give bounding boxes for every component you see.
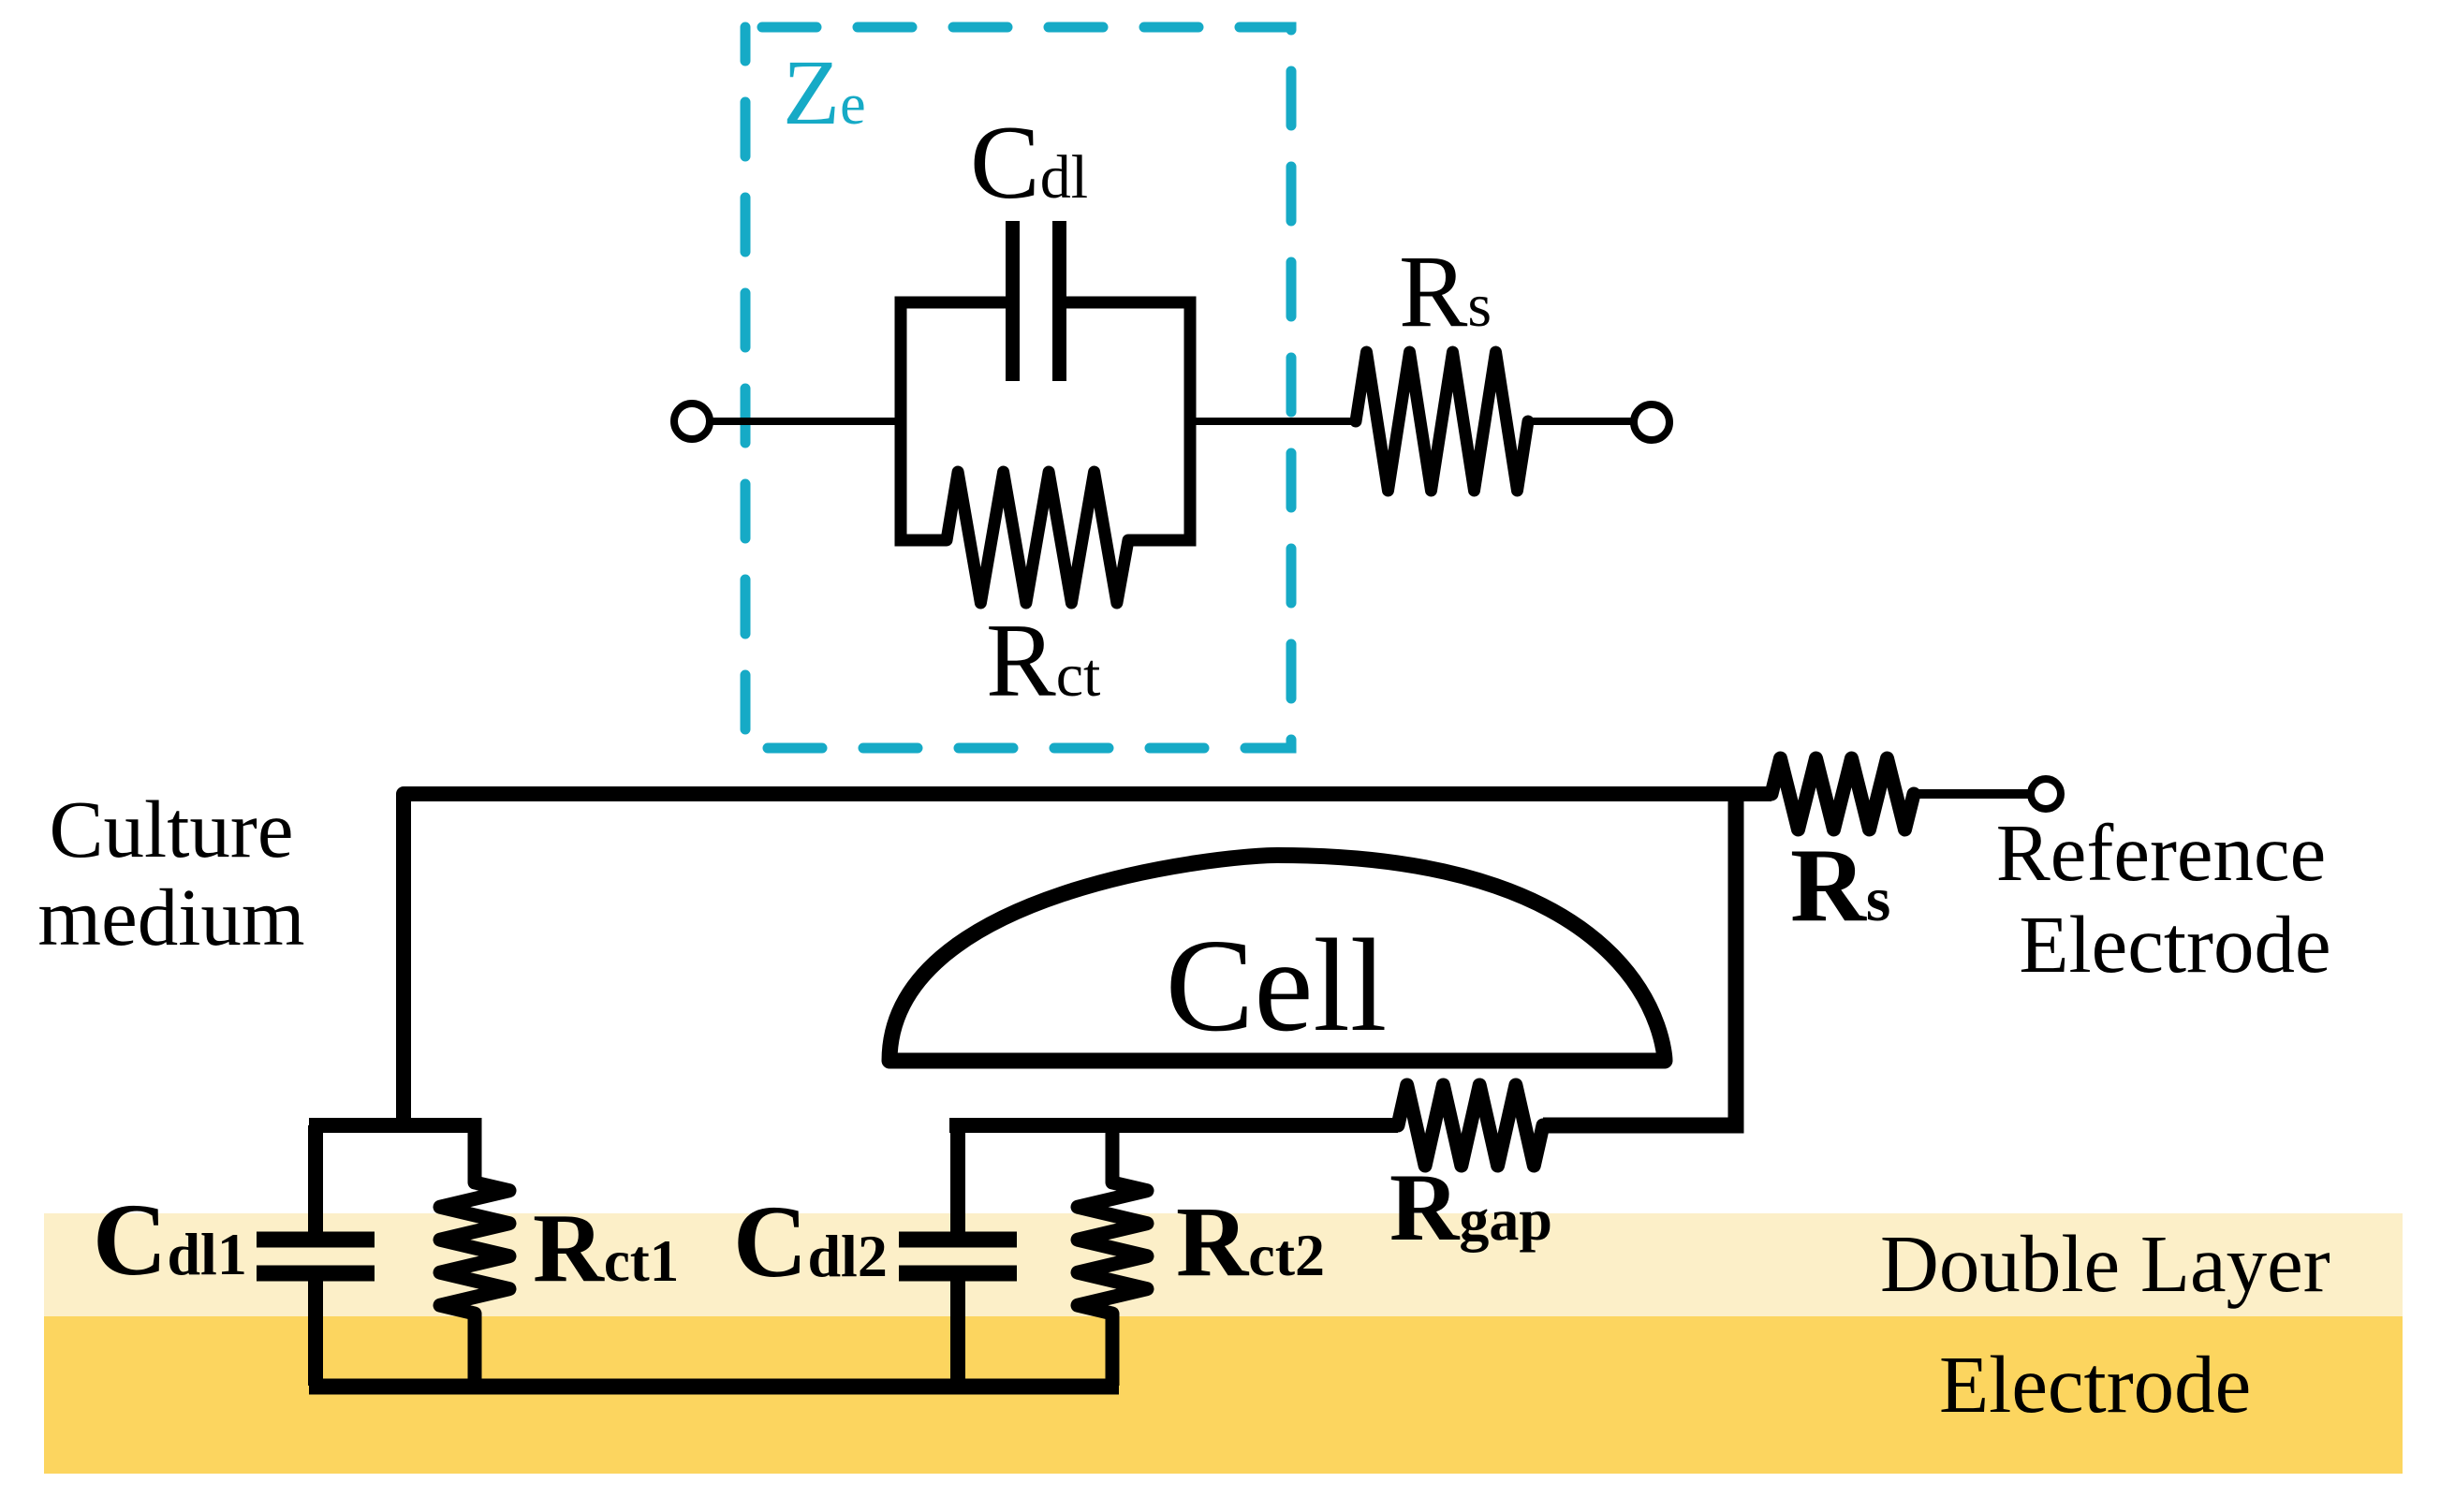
wire [712, 418, 901, 425]
svg-text:Rct: Rct [986, 603, 1100, 719]
wire top (culture medium loop) [404, 794, 1771, 1125]
svg-text:Rct2: Rct2 [1176, 1187, 1325, 1298]
svg-text:Cdl2: Cdl2 [733, 1184, 888, 1299]
resistor Rgap [1398, 1085, 1543, 1166]
svg-text:medium: medium [37, 872, 304, 962]
capacitor Cdl [1013, 221, 1060, 381]
svg-text:Cdl: Cdl [970, 105, 1088, 221]
svg-text:Rct1: Rct1 [533, 1193, 679, 1302]
svg-text:Cell: Cell [1166, 911, 1388, 1059]
wire right vertical [1543, 794, 1736, 1125]
wire Rgap line left [949, 1118, 1398, 1133]
wire Cdl2 branch upper [950, 1118, 965, 1232]
wire Cdl1 branch upper [308, 1125, 323, 1232]
svg-text:Ze: Ze [783, 40, 866, 144]
svg-text:Electrode: Electrode [1939, 1339, 2251, 1430]
wire pair1 top bar [309, 1118, 478, 1133]
resistor Rct1 [468, 1118, 482, 1182]
svg-text:Culture: Culture [50, 784, 294, 874]
resistor Rs top [1356, 352, 1528, 491]
svg-text:Cdl1: Cdl1 [93, 1182, 247, 1297]
resistor Rct2 [1106, 1118, 1120, 1182]
cell dome [889, 856, 1665, 1062]
wire [1190, 418, 1356, 425]
svg-text:Electrode: Electrode [2019, 899, 2330, 990]
svg-text:Rs: Rs [1399, 234, 1492, 348]
capacitor Cdl2 [899, 1240, 1017, 1273]
svg-text:Double Layer: Double Layer [1880, 1218, 2330, 1309]
band double layer [44, 1213, 2403, 1316]
resistor Rct [947, 472, 1128, 603]
svg-text:Reference: Reference [1996, 807, 2327, 898]
svg-text:Rs: Rs [1790, 828, 1890, 944]
wire Cdl1 branch lower [308, 1273, 323, 1386]
reference terminal [2031, 779, 2061, 809]
band electrode [44, 1316, 2403, 1474]
wire Cdl2 branch lower [950, 1273, 965, 1386]
dashed box Ze [745, 27, 1291, 748]
resistor Rs bottom [1771, 758, 1914, 829]
left terminal [674, 404, 710, 439]
node box (parallel RC) [895, 302, 1197, 540]
wire [1528, 418, 1634, 425]
wire bottom rail [309, 1379, 1119, 1395]
right terminal [1634, 404, 1669, 440]
svg-text:Rgap: Rgap [1389, 1154, 1552, 1261]
capacitor Cdl1 [257, 1240, 375, 1273]
wire [1914, 789, 2029, 799]
